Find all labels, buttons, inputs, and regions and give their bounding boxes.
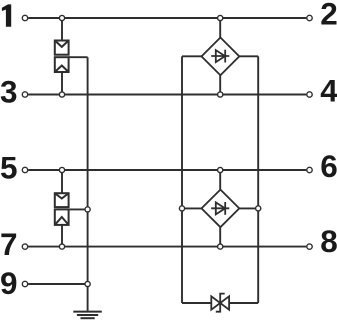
svg-text:8: 8 <box>320 223 337 259</box>
svg-text:2: 2 <box>320 0 337 32</box>
wire TVS1 top lead <box>61 18 63 41</box>
wire bridge2 left vertex to left rail <box>182 207 202 209</box>
junction TVS2 top on row5 <box>59 167 64 172</box>
junction TVS1 bottom on row3 <box>59 92 64 97</box>
pin 5 terminal <box>22 167 27 172</box>
wire TVS1 mid tap to ground bus <box>69 56 88 58</box>
bridge rectifier B2 diamond <box>202 190 240 228</box>
svg-text:9: 9 <box>0 265 18 301</box>
zener pair D1 bottom diode box <box>55 57 69 72</box>
pin 1 terminal <box>22 15 27 20</box>
zener pair D1 (pins 1-3) top diode box <box>55 41 69 55</box>
ground symbol <box>73 312 102 319</box>
wire row5 pin5 to pin6 <box>28 169 306 171</box>
pin 1 label <box>2 4 11 26</box>
wire pin9 to ground bus <box>28 283 87 285</box>
bidirectional TVS D3 right triangle <box>220 296 229 309</box>
svg-text:7: 7 <box>0 226 18 262</box>
wire row7 pin7 to pin8 <box>28 246 306 248</box>
junction bridge1 top on row1 <box>218 15 223 20</box>
bridge rectifier B1 diamond <box>202 38 240 76</box>
junction bridge2 right on right rail <box>256 206 261 211</box>
wire row3 pin3 to pin4 <box>28 94 306 96</box>
svg-text:5: 5 <box>0 150 18 186</box>
junction TVS2 bottom on row7 <box>59 244 64 249</box>
wire TVS2 mid tap to ground bus <box>69 208 88 210</box>
wire TVS3 to bottom right rail <box>229 302 258 304</box>
svg-text:6: 6 <box>320 148 337 184</box>
bidirectional TVS D3 left triangle <box>211 296 220 309</box>
junction bridge2 top on row5 <box>218 167 223 172</box>
wire bridge1 right vertex to right rail <box>239 55 258 57</box>
pin 3 terminal <box>22 92 27 97</box>
zener pair D2 bottom diode box <box>55 209 69 225</box>
left rail wire <box>181 56 183 303</box>
junction TVS2 tap on ground bus <box>85 207 90 212</box>
bidirectional TVS D3 zener bar <box>216 294 225 312</box>
wire bridge1 left vertex to left rail <box>182 55 202 57</box>
wire bridge2 top lead <box>219 170 221 190</box>
junction TVS1 top on row1 <box>59 15 64 20</box>
wire TVS2 bottom lead <box>61 225 63 247</box>
pin 8 terminal <box>307 244 312 249</box>
right rail wire <box>257 56 259 303</box>
pin 6 terminal <box>307 167 312 172</box>
junction bridge1 bottom on row3 <box>218 92 223 97</box>
zener pair D2 (pins 5-7) top diode box <box>55 193 69 207</box>
svg-text:4: 4 <box>320 72 337 108</box>
wire row1 pin1 to pin2 <box>28 17 306 19</box>
junction pin9 wire on ground bus <box>85 281 90 286</box>
ground bus vertical wire <box>87 57 89 311</box>
pin 2 terminal <box>307 15 312 20</box>
junction bridge2 bottom on row7 <box>218 244 223 249</box>
wire bridge1 top lead <box>219 18 221 38</box>
pin 9 terminal <box>22 281 27 286</box>
wire bridge2 bottom lead <box>219 227 221 246</box>
diode inside bridge B2 <box>211 202 229 215</box>
wire bridge1 bottom lead <box>219 75 221 94</box>
wire bottom left rail to TVS3 <box>182 302 211 304</box>
pin 4 terminal <box>307 92 312 97</box>
wire TVS2 top lead <box>61 170 63 193</box>
wire bridge2 right vertex to right rail <box>239 207 258 209</box>
svg-text:3: 3 <box>0 74 18 110</box>
diode inside bridge B1 <box>211 50 229 63</box>
junction bridge2 left on left rail <box>179 206 184 211</box>
pin 7 terminal <box>22 244 27 249</box>
wire TVS1 bottom lead <box>61 72 63 95</box>
